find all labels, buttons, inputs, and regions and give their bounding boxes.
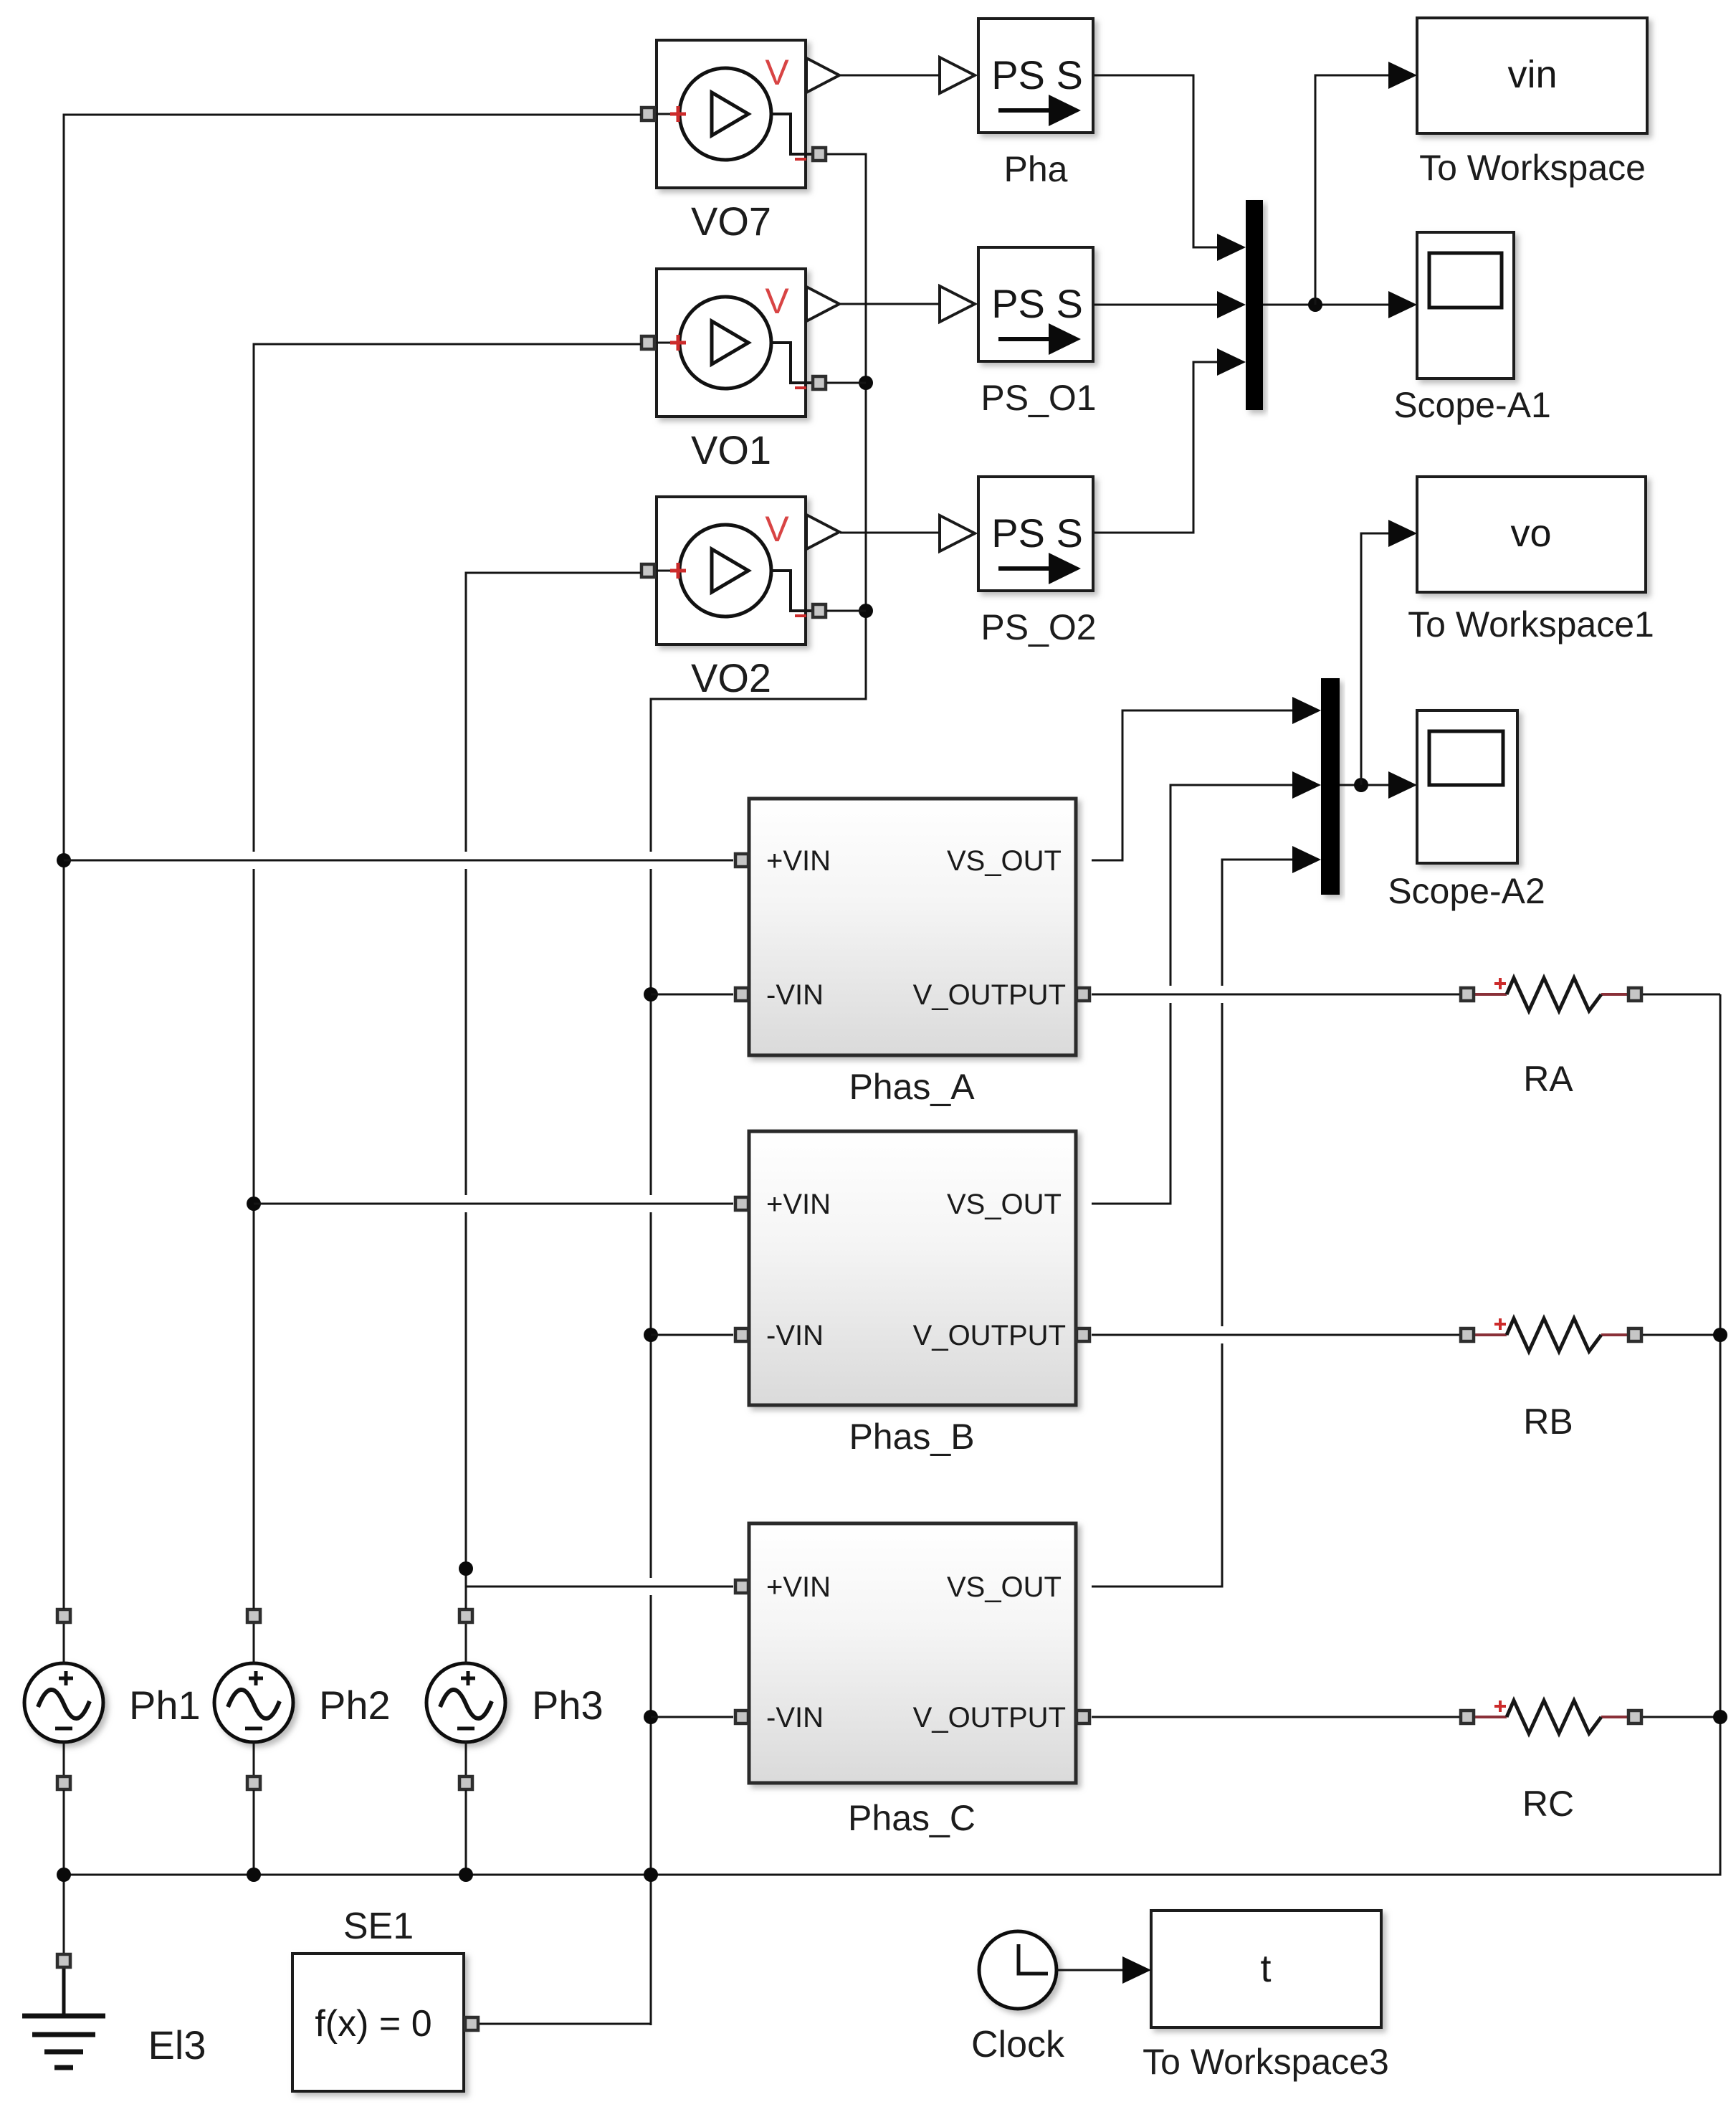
wire xyxy=(1092,785,1294,1204)
subsystem Phas_C xyxy=(735,1523,1089,1783)
wire xyxy=(1263,304,1390,306)
wire xyxy=(1643,1716,1720,1718)
wire xyxy=(651,1334,733,1336)
wire xyxy=(1094,304,1218,306)
mux M2 xyxy=(1321,678,1340,895)
voltage sensor VO1 xyxy=(642,269,839,472)
wire xyxy=(1643,1334,1720,1336)
svg-text:f(x) = 0: f(x) = 0 xyxy=(315,2003,431,2045)
solver configuration SE1 xyxy=(292,1906,478,2091)
wire crossing xyxy=(649,1578,653,1595)
svg-text:+VIN: +VIN xyxy=(766,845,831,877)
subsystem Phas_A xyxy=(735,799,1089,1055)
wire arrowhead xyxy=(1217,348,1246,376)
junction xyxy=(644,987,658,1002)
svg-text:Ph2: Ph2 xyxy=(319,1683,391,1728)
svg-text:Phas_C: Phas_C xyxy=(848,1798,976,1838)
wire xyxy=(254,1203,733,1205)
wire xyxy=(1361,533,1390,785)
svg-text:t: t xyxy=(1260,1947,1271,1990)
resistor RC xyxy=(1461,1700,1641,1824)
svg-text:V: V xyxy=(765,509,789,549)
wire xyxy=(64,115,641,1609)
wire arrowhead xyxy=(1292,771,1321,799)
svg-text:-VIN: -VIN xyxy=(766,1320,824,1351)
svg-text:vo: vo xyxy=(1510,512,1551,555)
svg-text:SE1: SE1 xyxy=(343,1906,414,1947)
ground El3 xyxy=(22,1875,206,2068)
svg-text:VS_OUT: VS_OUT xyxy=(947,1189,1062,1220)
wire arrowhead xyxy=(1292,697,1321,724)
svg-text:RB: RB xyxy=(1523,1402,1573,1442)
junction xyxy=(247,1868,261,1882)
wire arrowhead xyxy=(1292,846,1321,873)
wire xyxy=(466,573,641,1609)
wire arrowhead xyxy=(1388,771,1417,799)
wire arrowhead xyxy=(1388,291,1417,318)
junction xyxy=(644,1710,658,1724)
svg-text:VS_OUT: VS_OUT xyxy=(947,1571,1062,1603)
voltage sensor VO2 xyxy=(642,497,839,700)
wire xyxy=(1094,75,1218,247)
PS-Simulink converter PS_O1 xyxy=(940,247,1093,361)
wire arrowhead xyxy=(1388,62,1417,89)
svg-text:V: V xyxy=(765,52,789,92)
wire xyxy=(1315,75,1390,305)
wire xyxy=(466,1586,733,1588)
svg-text:+VIN: +VIN xyxy=(766,1189,831,1220)
wire crossing xyxy=(649,852,653,869)
junction xyxy=(459,1561,473,1576)
subsystem Phas_B xyxy=(735,1131,1089,1405)
svg-text:+VIN: +VIN xyxy=(766,1571,831,1603)
wire arrowhead xyxy=(1388,520,1417,547)
svg-text:Phas_A: Phas_A xyxy=(849,1067,975,1107)
resistor RB xyxy=(1461,1318,1641,1442)
wire xyxy=(1092,710,1294,860)
svg-text:Ph3: Ph3 xyxy=(532,1683,604,1728)
wire xyxy=(254,344,641,1609)
svg-text:Scope-A2: Scope-A2 xyxy=(1388,871,1545,911)
wire crossing xyxy=(1220,986,1224,1003)
svg-text:VO7: VO7 xyxy=(691,199,771,244)
svg-text:PS_O2: PS_O2 xyxy=(981,607,1096,647)
wire xyxy=(1643,994,1720,996)
svg-text:PS S: PS S xyxy=(991,281,1083,326)
svg-text:RA: RA xyxy=(1523,1059,1573,1099)
scope Scope-A2 xyxy=(1417,710,1517,863)
To Workspace3 block (t) xyxy=(1151,1911,1381,2027)
wire arrowhead xyxy=(1217,291,1246,318)
wire xyxy=(64,994,1720,1875)
junction xyxy=(1713,1328,1727,1342)
resistor RA xyxy=(1461,978,1641,1099)
ac voltage source Ph3 xyxy=(426,1609,604,1789)
svg-text:To Workspace: To Workspace xyxy=(1419,148,1646,188)
svg-text:VS_OUT: VS_OUT xyxy=(947,845,1062,877)
voltage sensor VO7 xyxy=(642,40,839,244)
To Workspace1 block (vo) xyxy=(1417,477,1646,592)
scope Scope-A1 xyxy=(1417,232,1514,379)
junction xyxy=(644,1868,658,1882)
junction xyxy=(859,604,873,618)
svg-text:El3: El3 xyxy=(148,2022,206,2068)
wire xyxy=(826,382,866,384)
wire xyxy=(1092,994,1459,996)
wire xyxy=(651,994,733,996)
svg-text:Pha: Pha xyxy=(1004,149,1068,189)
svg-text:PS_O1: PS_O1 xyxy=(981,378,1096,418)
wire crossing xyxy=(649,1195,653,1212)
junction xyxy=(57,853,71,867)
wire arrowhead xyxy=(1122,1956,1151,1984)
wire crossing xyxy=(1168,986,1173,1003)
svg-text:Scope-A1: Scope-A1 xyxy=(1393,385,1551,425)
wire xyxy=(64,860,733,862)
PS-Simulink converter Pha xyxy=(940,19,1093,133)
svg-text:-VIN: -VIN xyxy=(766,979,824,1011)
junction xyxy=(1713,1710,1727,1724)
wire xyxy=(1092,1716,1459,1718)
svg-text:vin: vin xyxy=(1507,53,1557,96)
svg-text:V_OUTPUT: V_OUTPUT xyxy=(913,979,1066,1011)
svg-text:Clock: Clock xyxy=(971,2024,1065,2065)
clock Clock xyxy=(971,1931,1065,2065)
wire xyxy=(1094,362,1218,533)
ac voltage source Ph2 xyxy=(214,1609,391,1789)
junction xyxy=(459,1868,473,1882)
svg-text:Phas_B: Phas_B xyxy=(849,1417,974,1457)
ac voltage source Ph1 xyxy=(24,1609,201,1789)
wire xyxy=(1340,784,1390,786)
junction xyxy=(57,1868,71,1882)
wire xyxy=(840,303,939,305)
svg-text:PS S: PS S xyxy=(991,52,1083,97)
junction xyxy=(644,1328,658,1342)
svg-text:To Workspace3: To Workspace3 xyxy=(1143,2042,1389,2082)
wire arrowhead xyxy=(1217,234,1246,261)
svg-text:V_OUTPUT: V_OUTPUT xyxy=(913,1320,1066,1351)
wire xyxy=(1092,860,1294,1587)
wire xyxy=(826,610,866,612)
wire xyxy=(840,532,939,534)
svg-text:-VIN: -VIN xyxy=(766,1702,824,1733)
wire crossing xyxy=(464,1195,468,1212)
wire xyxy=(1057,1969,1124,1971)
wire crossing xyxy=(252,852,256,869)
wire xyxy=(253,1790,255,1875)
wire xyxy=(651,1716,733,1718)
svg-text:Ph1: Ph1 xyxy=(129,1683,201,1728)
junction xyxy=(1354,778,1368,792)
PS-Simulink converter PS_O2 xyxy=(940,477,1093,591)
wire xyxy=(840,75,939,77)
mux M1 xyxy=(1246,200,1263,410)
To Workspace block (vin) xyxy=(1417,18,1647,133)
wire crossing xyxy=(1220,1326,1224,1343)
junction xyxy=(1308,298,1322,312)
wire xyxy=(63,1790,65,1875)
wire xyxy=(1092,1334,1459,1336)
svg-text:V_OUTPUT: V_OUTPUT xyxy=(913,1702,1066,1733)
svg-text:VO2: VO2 xyxy=(691,655,771,700)
wire xyxy=(465,1790,467,1875)
svg-text:PS S: PS S xyxy=(991,510,1083,556)
junction xyxy=(859,376,873,390)
wire crossing xyxy=(464,852,468,869)
svg-text:To Workspace1: To Workspace1 xyxy=(1408,604,1654,644)
junction xyxy=(247,1197,261,1211)
wire xyxy=(651,154,866,2025)
svg-text:VO1: VO1 xyxy=(691,427,771,472)
svg-text:RC: RC xyxy=(1522,1784,1574,1824)
svg-text:V: V xyxy=(765,281,789,321)
wire xyxy=(480,2023,651,2025)
